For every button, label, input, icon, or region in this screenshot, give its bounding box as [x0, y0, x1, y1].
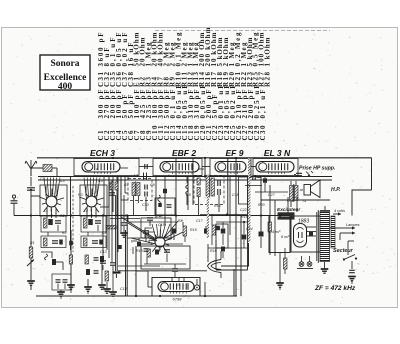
svg-text:R19: R19 — [190, 228, 197, 232]
wire V2 col c — [175, 158, 177, 232]
dial lamp 2 — [307, 256, 312, 266]
svg-text:C9: C9 — [150, 183, 155, 187]
resistor R13 — [147, 249, 150, 257]
svg-text:400: 400 — [58, 82, 73, 92]
antenna — [25, 160, 37, 176]
wire V2 col d — [188, 158, 193, 210]
svg-text:EL 3 N: EL 3 N — [264, 148, 291, 158]
wire ECH3 link to IF1 — [100, 193, 128, 207]
wire gang link — [71, 177, 74, 253]
wire antenna to C1 — [31, 167, 43, 169]
svg-text:R18: R18 — [210, 249, 217, 253]
svg-text:C14: C14 — [120, 287, 127, 291]
coil unit B box — [80, 185, 107, 216]
svg-text:R20: R20 — [258, 203, 265, 207]
EF9 cathode box — [239, 177, 249, 204]
svg-text:1 kOhm: 1 kOhm — [264, 37, 272, 66]
lamp bar — [297, 268, 313, 270]
svg-text:R2: R2 — [62, 231, 67, 235]
wire top right drop — [352, 158, 372, 216]
tube V4 EL3N envelope box — [253, 159, 298, 176]
svg-text:C12: C12 — [120, 214, 127, 218]
mains arrows — [330, 209, 360, 240]
wire EBF2 row — [128, 216, 176, 223]
wire A wedge — [41, 252, 63, 270]
svg-text:Sonora: Sonora — [50, 59, 79, 69]
svg-text:C13: C13 — [100, 250, 107, 254]
svg-text:R28: R28 — [264, 72, 272, 88]
capacitor C16 — [172, 229, 177, 241]
svg-text:4 mF: 4 mF — [272, 230, 281, 234]
svg-text:C22: C22 — [240, 208, 247, 212]
wire V3 col1 — [204, 158, 206, 178]
svg-text:R15: R15 — [214, 204, 221, 208]
svg-text:8 mF: 8 mF — [281, 235, 290, 239]
svg-text:EBF 2: EBF 2 — [172, 148, 196, 158]
wire mid risers — [103, 176, 121, 262]
capacitor C23b — [216, 226, 220, 231]
tube V4 EL3N envelope — [256, 162, 294, 175]
svg-text:C24: C24 — [246, 227, 253, 231]
svg-text:R16: R16 — [241, 215, 248, 219]
svg-text:C17: C17 — [196, 219, 204, 223]
shielded cable EF9 — [207, 176, 209, 238]
speaker — [304, 180, 320, 198]
svg-text:g: g — [148, 239, 150, 243]
wire V5 leads — [136, 271, 152, 287]
capacitor C24 det — [242, 222, 247, 248]
wire socket A tails — [47, 208, 56, 219]
padder box B — [81, 236, 106, 248]
tube V2 EBF2 envelope — [160, 162, 199, 175]
coupling caps B-IF1 — [109, 182, 140, 219]
wire B drop — [98, 262, 106, 289]
padder box A — [41, 236, 66, 248]
svg-text:R10: R10 — [156, 214, 163, 218]
label ZF — [314, 285, 356, 292]
ground A — [57, 290, 65, 299]
coil L5b — [158, 195, 161, 204]
wire AF links — [144, 257, 186, 264]
wire bottom riser — [204, 282, 206, 296]
wire speaker links — [288, 190, 303, 216]
svg-text:R1: R1 — [124, 183, 129, 187]
wire EBF2 grid bends — [145, 228, 155, 238]
svg-text:b: b — [168, 174, 170, 178]
detector box — [216, 176, 248, 270]
inter-pill link 1 — [120, 164, 153, 169]
connector cornet — [208, 251, 222, 278]
wire EL3N plate — [261, 176, 330, 232]
svg-text:Secteur: Secteur — [333, 248, 354, 254]
coil L5 — [186, 176, 189, 205]
resistor R12 — [183, 222, 187, 242]
earth terminal — [11, 195, 32, 216]
wire V5 top pins — [172, 278, 184, 282]
wire EL3N col — [274, 200, 276, 256]
coil unit A switch — [39, 178, 64, 213]
prise HP arrow — [294, 171, 313, 177]
capacitor C15 grid — [143, 231, 155, 242]
wire bottom bus — [36, 295, 237, 297]
wire mid h links — [118, 238, 207, 271]
svg-text:C31: C31 — [287, 199, 294, 203]
wire det row2 — [216, 221, 247, 223]
coil unit A box — [40, 185, 67, 216]
trimmer IF2 left — [198, 197, 200, 216]
svg-text:V5: V5 — [176, 283, 180, 287]
svg-text:ECH 3: ECH 3 — [90, 148, 115, 158]
wire AVC bus — [14, 215, 287, 217]
wire filament bus 2 — [38, 179, 332, 181]
wire det bottom — [208, 244, 247, 262]
wire EBF2 plate — [165, 222, 176, 238]
potentiometer R1 volume — [27, 247, 34, 266]
tube label EL3N — [264, 148, 291, 158]
svg-text:C8: C8 — [102, 231, 107, 235]
svg-text:L2: L2 — [84, 209, 88, 213]
capacitor C14b — [110, 263, 116, 265]
grid cap box B — [81, 216, 106, 233]
wire ECH3 grid drops — [104, 176, 125, 216]
wire V2 col a — [155, 176, 157, 218]
wire antenna down — [30, 191, 32, 247]
group B4 — [86, 269, 99, 275]
svg-text:R13: R13 — [136, 249, 143, 253]
svg-text:C10: C10 — [142, 203, 149, 207]
svg-text:H.P.: H.P. — [331, 187, 340, 193]
svg-text:ZF = 472 kHz: ZF = 472 kHz — [314, 285, 356, 292]
capacitor C25 det — [221, 247, 225, 259]
ground mid — [103, 266, 117, 296]
grid box V2 — [155, 198, 175, 215]
capacitor C33 top — [172, 264, 178, 277]
svg-text:R8: R8 — [178, 219, 183, 223]
volume pot box — [216, 224, 228, 248]
wire antenna lead — [30, 177, 32, 186]
wire EL3N rows — [245, 185, 288, 215]
tube V5 envelope — [158, 282, 194, 294]
capacitor C28 blobs — [263, 176, 267, 192]
ground B — [84, 279, 92, 294]
capacitor C27 tone — [259, 232, 264, 249]
svg-text:L1: L1 — [44, 209, 48, 213]
filter capacitor box C32 — [269, 216, 290, 253]
capacitor C23 det — [221, 222, 226, 245]
capacitor C12 bypass — [120, 195, 128, 237]
ground transformer — [321, 262, 329, 273]
svg-text:L2: L2 — [92, 191, 96, 195]
wire IF1 feed pair — [128, 173, 147, 181]
wire EBF2 boundary pair — [126, 216, 128, 297]
wire shielded pair — [113, 195, 121, 278]
node antenna tap — [31, 195, 40, 197]
speaker label HP — [331, 187, 340, 193]
label excitateur — [277, 207, 301, 213]
inter-pill link 2 — [199, 167, 210, 170]
rectifier tube 1883 — [294, 224, 307, 248]
tube V3 EF9 envelope — [215, 162, 246, 175]
wire V2 socket diagonals — [121, 217, 183, 244]
tube V5 box — [152, 278, 200, 297]
svg-text:Prise HP supp.: Prise HP supp. — [299, 166, 335, 172]
capacitor C26 couple — [249, 175, 261, 180]
label V5 — [173, 297, 183, 302]
tube V1 ECH3 envelope — [82, 162, 120, 175]
svg-text:C18: C18 — [232, 193, 239, 197]
cluster left of V2 socket — [131, 238, 149, 254]
resistor R22 grid — [268, 216, 272, 256]
svg-text:C5: C5 — [98, 179, 103, 183]
dial lamp 1 — [299, 256, 304, 266]
capacitor C20b — [155, 250, 159, 255]
wire V3 col2 — [228, 158, 236, 296]
svg-text:R3: R3 — [78, 193, 83, 197]
capacitor C2 antenna series — [27, 188, 35, 190]
svg-text:4 volts: 4 volts — [334, 209, 345, 213]
svg-text:6798: 6798 — [173, 297, 183, 302]
transformer top leads — [320, 206, 330, 211]
coil unit B switch — [79, 178, 104, 213]
wire af drop — [136, 246, 160, 296]
power supply box — [291, 216, 320, 252]
resistor R4 AVC — [106, 226, 122, 250]
title box Sonora Excellence 400 — [40, 55, 90, 92]
field coil — [278, 212, 295, 219]
svg-text:R9: R9 — [186, 193, 191, 197]
trimmer IF1 left — [133, 196, 135, 215]
IF transformer 1 windings — [132, 181, 147, 197]
ground power left — [276, 252, 284, 290]
label prise HP — [299, 166, 335, 172]
IF transformer 2 shield — [194, 176, 224, 205]
shielded cable — [248, 158, 250, 242]
wire A risers — [46, 186, 57, 196]
tube label ECH3 — [90, 148, 115, 158]
capacitor C11b — [147, 218, 153, 226]
capacitor C13 bypass — [100, 261, 106, 270]
trimmer IF1 right — [139, 196, 147, 211]
capacitor box A — [52, 274, 71, 290]
EBF2 grid box — [141, 218, 171, 238]
wire col3 — [69, 230, 73, 284]
jack P.U. — [194, 279, 199, 290]
switch cap and ground — [348, 261, 356, 284]
svg-text:T1: T1 — [302, 199, 306, 203]
svg-text:Lampes: Lampes — [346, 223, 360, 227]
AF coupling box — [141, 246, 190, 269]
svg-text:C15: C15 — [158, 223, 165, 227]
IF transformer 1 shield — [128, 179, 152, 201]
wire pot down — [30, 258, 32, 280]
svg-text:C27: C27 — [268, 193, 276, 197]
ground antenna pot — [27, 281, 35, 290]
wire det drop — [234, 216, 241, 297]
ground A row1 — [47, 232, 49, 236]
output transformer — [290, 181, 299, 207]
mains switch — [343, 241, 357, 261]
wire V2 col b — [163, 176, 167, 225]
capacitor C21 — [164, 250, 170, 262]
wire det corner — [221, 243, 249, 266]
tube label EBF2 — [172, 148, 196, 158]
svg-text:R2: R2 — [60, 214, 65, 218]
capacitor C1 antenna trimmer — [37, 165, 57, 177]
svg-text:L6: L6 — [205, 174, 209, 178]
wire filament bus 1 — [38, 176, 332, 178]
wire socket B tails — [87, 208, 96, 219]
group B3 — [85, 255, 104, 264]
rectifier leads — [306, 227, 316, 236]
svg-text:L3: L3 — [134, 174, 138, 178]
resistor R27 dial — [284, 248, 288, 274]
inter-pill link 3 — [251, 166, 256, 168]
tube V1 ECH3 envelope box — [74, 159, 139, 176]
wire grid row — [255, 215, 280, 217]
svg-text:Excitateur: Excitateur — [277, 207, 301, 213]
svg-text:C3: C3 — [60, 179, 65, 183]
svg-text:C30: C30 — [259, 125, 267, 141]
trimmer IF2 right — [208, 195, 219, 212]
ground col3 — [67, 285, 75, 293]
ground B row1 — [87, 232, 89, 236]
tube V2 EBF2 envelope box — [153, 159, 202, 176]
tube V2 socket — [148, 224, 172, 252]
svg-text:L1: L1 — [52, 191, 56, 195]
wire top supply bus — [37, 157, 372, 159]
grid cap box A — [41, 216, 66, 233]
mains transformer — [317, 210, 335, 263]
tube label EF9 — [226, 148, 244, 158]
diode load caps — [204, 226, 208, 234]
svg-text:EF 9: EF 9 — [226, 148, 244, 158]
resistor R7b — [105, 271, 109, 288]
resistor R17 det — [212, 214, 216, 245]
svg-text:R1: R1 — [30, 241, 35, 245]
wire det row1 — [200, 214, 247, 216]
wire B risers — [86, 186, 97, 196]
tube V3 EF9 envelope box — [210, 159, 251, 176]
component reference labels — [30, 167, 306, 291]
IF transformer 2 windings — [197, 177, 220, 198]
svg-text:C2: C2 — [40, 177, 45, 181]
label 1883 — [298, 219, 309, 225]
label secteur — [333, 248, 354, 254]
svg-text:a: a — [96, 167, 98, 171]
